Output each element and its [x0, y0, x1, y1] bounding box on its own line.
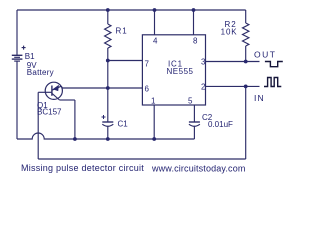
- wire bottom IN line: [38, 158, 246, 160]
- capacitor C1 curved plate: [102, 124, 113, 126]
- wire pin5 vertical to C2: [193, 105, 195, 122]
- svg-text:www.circuitstoday.com: www.circuitstoday.com: [151, 164, 246, 174]
- capacitor C1 top plate: [102, 121, 113, 123]
- svg-text:0.01uF: 0.01uF: [208, 120, 233, 129]
- wire pin1 vertical: [153, 105, 155, 139]
- wire pin6 / emitter horizontal: [62, 87, 142, 89]
- wire IN vertical down to bottom line: [245, 86, 247, 159]
- node dot R1 top: [106, 8, 110, 12]
- wire top rail: [17, 9, 246, 11]
- wire R2 top lead from rail: [245, 10, 247, 23]
- wire ground rail with hop over base wire: [17, 133, 194, 139]
- node dot IN: [244, 85, 248, 89]
- node dot C1 on ground: [106, 137, 110, 141]
- svg-text:OUT: OUT: [254, 50, 276, 60]
- resistor R2: [243, 23, 249, 46]
- wire R1 top lead: [107, 10, 109, 24]
- wire collector stub: [60, 99, 75, 101]
- svg-text:C1: C1: [118, 120, 129, 129]
- node dot emitter junction: [106, 86, 110, 90]
- transistor Q1 base wire: [38, 91, 52, 93]
- wire pin4 vertical: [154, 10, 156, 35]
- wire R2 bottom lead: [245, 46, 247, 62]
- svg-text:R1: R1: [116, 27, 128, 36]
- node dot collector on ground: [73, 137, 77, 141]
- capacitor C1 plus sign: [102, 115, 106, 119]
- IC U1 box: [142, 35, 205, 105]
- svg-text:NE555: NE555: [167, 67, 194, 76]
- capacitor C2 curved plate: [189, 124, 200, 126]
- waveform icon IN (pulse train): [264, 78, 281, 87]
- transistor Q1 collector line: [52, 93, 60, 100]
- svg-text:6: 6: [145, 85, 150, 94]
- transistor Q1 emitter arrow: [53, 85, 59, 91]
- svg-text:10K: 10K: [221, 28, 238, 37]
- svg-text:8: 8: [193, 37, 198, 46]
- wire node column to C1: [107, 61, 109, 123]
- resistor R1: [105, 24, 111, 48]
- svg-text:2: 2: [201, 83, 206, 92]
- node dot R1 bottom / pin7: [106, 59, 110, 63]
- transistor Q1 emitter line: [52, 86, 63, 90]
- wire left rail upper (battery +): [16, 10, 18, 55]
- svg-text:IN: IN: [254, 93, 265, 103]
- waveform icon OUT (missing pulse): [265, 62, 283, 67]
- wire R1 bottom lead to pin7 node: [107, 48, 109, 61]
- wire left rail lower (battery - to ground): [16, 61, 18, 139]
- node dot pin4 top: [153, 8, 157, 12]
- svg-text:1: 1: [151, 97, 156, 106]
- svg-text:7: 7: [145, 60, 150, 69]
- wire C2 bottom lead: [193, 126, 195, 139]
- wire pin7 horizontal: [108, 60, 143, 62]
- svg-text:B1: B1: [25, 52, 35, 61]
- node dot pin8 top: [192, 8, 196, 12]
- node dot OUT: [244, 60, 248, 64]
- transistor Q1 circle: [45, 82, 62, 99]
- svg-text:BC157: BC157: [37, 108, 62, 117]
- svg-text:Battery: Battery: [27, 68, 54, 77]
- battery B1 plates: [12, 54, 23, 56]
- wire pin3 to OUT: [206, 61, 260, 63]
- transistor Q1 base bar: [51, 86, 53, 96]
- svg-text:3: 3: [201, 57, 206, 66]
- svg-text:4: 4: [153, 37, 158, 46]
- svg-text:5: 5: [188, 97, 193, 106]
- battery plus sign: [22, 46, 26, 50]
- wire base vertical: [37, 92, 39, 159]
- wire C1 bottom lead: [107, 126, 109, 139]
- capacitor C2 top plate: [189, 121, 200, 123]
- svg-text:Missing pulse detector circuit: Missing pulse detector circuit: [21, 163, 144, 173]
- wire pin2 to IN: [206, 85, 260, 87]
- wire pin8 vertical: [193, 10, 195, 35]
- wire collector vertical: [74, 100, 76, 139]
- node dot pin1 on ground: [152, 137, 156, 141]
